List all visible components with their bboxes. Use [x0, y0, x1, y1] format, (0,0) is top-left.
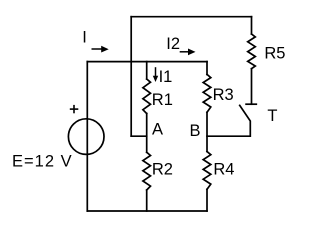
- svg-text:B: B: [190, 122, 201, 140]
- wire middle branch top: [146, 62, 148, 79]
- wire R5 to switch: [251, 69, 253, 105]
- wire node A stub: [131, 135, 147, 137]
- wire inner-left vertical: [130, 17, 132, 137]
- svg-text:A: A: [152, 120, 163, 138]
- resistor R3: [203, 74, 211, 112]
- svg-text:R5: R5: [264, 45, 285, 63]
- wire mid horizontal: [87, 61, 207, 63]
- resistor R5: [248, 34, 256, 69]
- svg-text:T: T: [267, 107, 277, 125]
- current arrow I1: [155, 67, 157, 76]
- wire middle branch mid: [146, 114, 148, 153]
- svg-text:R1: R1: [152, 91, 173, 109]
- svg-text:I2: I2: [166, 35, 180, 53]
- plus sign of source: [70, 105, 79, 113]
- voltage source E circle: [68, 119, 104, 155]
- svg-text:R3: R3: [213, 86, 234, 104]
- switch T lever and wire to node B: [207, 105, 250, 136]
- resistor R4: [203, 152, 211, 190]
- wire right-mid branch top: [206, 62, 208, 75]
- wire left vertical: [86, 62, 88, 211]
- wire top horizontal: [131, 16, 251, 18]
- resistor R2: [143, 152, 151, 190]
- wire right-mid branch bottom: [206, 189, 208, 211]
- svg-text:R4: R4: [213, 161, 234, 179]
- resistor R1: [143, 79, 151, 114]
- switch T fixed contact bar: [246, 103, 256, 105]
- wire right vertical top: [251, 17, 253, 34]
- wire middle branch bottom: [146, 190, 148, 211]
- wire right-mid branch mid: [206, 112, 208, 151]
- svg-text:I: I: [82, 28, 87, 46]
- wire bottom horizontal: [87, 210, 207, 212]
- current arrow I2: [180, 51, 189, 53]
- svg-text:I1: I1: [159, 68, 173, 86]
- svg-text:R2: R2: [152, 161, 173, 179]
- current arrow I: [92, 48, 103, 50]
- svg-text:E=12 V: E=12 V: [12, 153, 73, 171]
